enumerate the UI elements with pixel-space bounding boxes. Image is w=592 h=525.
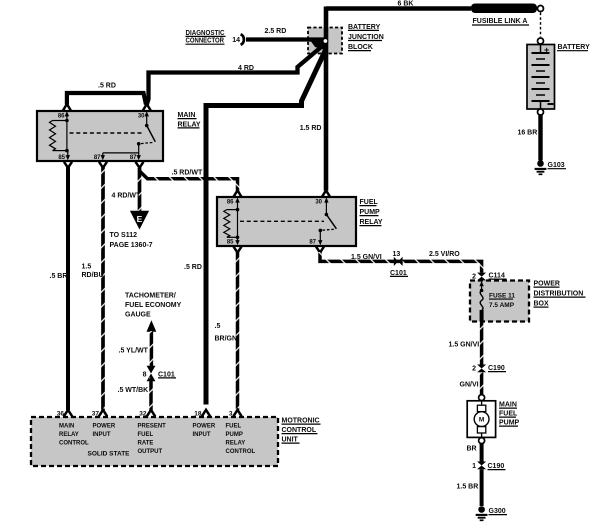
svg-text:TO S112: TO S112 <box>110 232 138 239</box>
svg-text:1.5 BR: 1.5 BR <box>457 484 479 491</box>
svg-text:86: 86 <box>227 200 234 206</box>
wire 6 BK horizontal from junction to fusible link <box>326 1 471 9</box>
main relay U1 label <box>178 112 201 128</box>
svg-text:30: 30 <box>138 114 145 120</box>
svg-text:INPUT: INPUT <box>93 432 111 438</box>
svg-text:INPUT: INPUT <box>193 432 211 438</box>
svg-text:.5 WT/BK: .5 WT/BK <box>118 387 149 394</box>
terminal circle at fusible link end <box>538 6 544 12</box>
battery <box>527 44 590 109</box>
svg-text:CONTROL: CONTROL <box>226 449 256 455</box>
svg-text:.5: .5 <box>215 323 221 330</box>
svg-text:C101: C101 <box>390 270 407 277</box>
svg-text:CONTROL: CONTROL <box>59 441 89 447</box>
main relay pin 87 middle inner arrow <box>101 155 105 160</box>
main relay pin 87 right inner arrow <box>137 155 141 160</box>
svg-text:.5 RD: .5 RD <box>98 83 116 90</box>
svg-text:MAIN: MAIN <box>499 402 517 409</box>
svg-text:FUEL: FUEL <box>499 411 518 418</box>
svg-text:2.5 VI/RO: 2.5 VI/RO <box>429 251 460 258</box>
svg-text:.5 RD/WT: .5 RD/WT <box>172 170 203 177</box>
svg-text:RELAY: RELAY <box>226 441 246 447</box>
wire .5 BR/GN fuel pump relay 85 to Motronic 3 <box>215 247 242 417</box>
ground G300 <box>476 506 507 520</box>
main relay pin flare 86 top <box>63 104 71 111</box>
svg-text:2: 2 <box>472 366 476 373</box>
wire main vertical battery feed through junction block down to fuel pump relay <box>324 7 329 191</box>
main relay pin 30 inner arrow and switch <box>137 111 155 145</box>
svg-text:6 BK: 6 BK <box>398 1 414 8</box>
svg-text:1.5 GN/VI: 1.5 GN/VI <box>351 254 382 261</box>
svg-text:C114: C114 <box>489 273 505 280</box>
svg-text:PUMP: PUMP <box>360 209 381 216</box>
pump top terminal circle <box>479 395 485 401</box>
svg-text:87: 87 <box>130 155 137 161</box>
arrow to tachometer <box>147 320 157 332</box>
diagnostic connector pin 14 symbol <box>232 34 244 45</box>
svg-text:JUNCTION: JUNCTION <box>348 34 384 41</box>
svg-text:DIAGNOSTIC: DIAGNOSTIC <box>186 30 225 37</box>
svg-text:1.5 GN/VI: 1.5 GN/VI <box>449 342 480 349</box>
svg-text:FUSE 11: FUSE 11 <box>489 293 515 300</box>
wire BR pump to C190 <box>467 444 482 462</box>
svg-text:C190: C190 <box>488 463 505 470</box>
wire 1.5 RD/BU main relay 87 to Motronic 37 <box>82 162 108 417</box>
svg-text:BATTERY: BATTERY <box>348 24 381 31</box>
svg-text:TACHOMETER/: TACHOMETER/ <box>125 293 176 300</box>
svg-text:2.5 RD: 2.5 RD <box>265 28 287 35</box>
svg-text:MOTRONIC: MOTRONIC <box>282 418 320 425</box>
svg-text:85: 85 <box>58 155 65 161</box>
wire 16 BR battery to ground <box>517 115 540 161</box>
svg-text:32: 32 <box>139 411 147 418</box>
svg-text:.5 YL/WT: .5 YL/WT <box>119 348 149 355</box>
svg-text:GN/VI: GN/VI <box>460 382 479 389</box>
svg-text:16 BR: 16 BR <box>517 130 537 137</box>
main relay pin flare 30 top <box>143 104 151 111</box>
fuel pump relay pin 87 inner arrow <box>318 230 322 245</box>
svg-text:FUEL: FUEL <box>360 199 379 206</box>
svg-text:POWER: POWER <box>93 424 116 430</box>
svg-text:C190: C190 <box>488 365 505 372</box>
svg-text:OUTPUT: OUTPUT <box>138 449 163 455</box>
svg-text:8: 8 <box>143 372 147 379</box>
svg-text:PUMP: PUMP <box>226 432 243 438</box>
svg-text:1: 1 <box>472 463 476 470</box>
svg-text:RD/BU: RD/BU <box>82 272 104 279</box>
svg-text:POWER: POWER <box>534 281 560 288</box>
wire GN/VI C190 to pump <box>460 372 482 394</box>
fuel pump relay coil <box>224 208 240 239</box>
main relay pin 85 inner arrow <box>66 151 70 161</box>
svg-text:87: 87 <box>309 239 316 245</box>
svg-text:C101: C101 <box>158 371 175 378</box>
svg-text:BOX: BOX <box>534 301 550 308</box>
fuel pump relay armature dashed link <box>240 220 324 222</box>
svg-text:CONTROL: CONTROL <box>282 427 317 434</box>
wire .5 RD loop main relay pin 86 to pin 30 <box>67 83 146 105</box>
svg-text:BR/GN: BR/GN <box>215 336 238 343</box>
svg-text:.5 RD: .5 RD <box>184 264 202 271</box>
junction fan blob <box>310 40 328 51</box>
power distribution box label <box>534 281 586 308</box>
svg-text:4 RD: 4 RD <box>238 65 254 72</box>
Motronic pin 18 flare <box>202 410 210 417</box>
svg-text:G103: G103 <box>548 162 565 169</box>
svg-text:13: 13 <box>393 251 401 258</box>
connector C190 pin 1 <box>472 462 505 471</box>
wire 2.5 RD diagnostic connector to junction <box>246 28 324 40</box>
Motronic control unit box <box>31 417 278 466</box>
svg-text:1.5: 1.5 <box>82 264 92 271</box>
Motronic control unit label <box>282 418 321 444</box>
fusible link A <box>471 4 537 26</box>
main fuel pump <box>467 401 519 438</box>
svg-text:RELAY: RELAY <box>59 432 79 438</box>
svg-text:BATTERY: BATTERY <box>558 44 591 51</box>
svg-text:4 RD/WT: 4 RD/WT <box>112 193 142 200</box>
node at battery junction block <box>323 39 328 44</box>
svg-text:SOLID STATE: SOLID STATE <box>88 451 131 458</box>
connector C101 pin 13 on horizontal wire <box>390 251 408 277</box>
fuel pump relay pin 30 inner arrow and switch <box>319 197 337 232</box>
Motronic internal labels <box>59 424 255 458</box>
svg-text:MAIN: MAIN <box>59 424 74 430</box>
main relay armature dashed link <box>70 132 145 134</box>
svg-text:30: 30 <box>315 200 322 206</box>
fuse 11 <box>479 281 515 322</box>
svg-text:RELAY: RELAY <box>360 219 383 226</box>
svg-text:PAGE 1360-7: PAGE 1360-7 <box>110 242 153 249</box>
tachometer / fuel economy gauge label <box>125 293 182 319</box>
svg-text:MAIN: MAIN <box>178 112 196 119</box>
svg-text:FUEL ECONOMY: FUEL ECONOMY <box>125 302 182 309</box>
svg-text:DISTRIBUTION: DISTRIBUTION <box>534 291 584 298</box>
wire 1.5 GN/VI fuse to C190 <box>449 322 482 365</box>
svg-text:2: 2 <box>472 273 476 280</box>
main relay coil <box>50 119 69 153</box>
main relay box <box>37 111 163 161</box>
svg-text:CONNECTOR: CONNECTOR <box>186 38 225 45</box>
svg-text:3: 3 <box>229 411 233 418</box>
svg-text:FUEL: FUEL <box>226 424 242 430</box>
wire .5 RD/WT branch to fuel pump relay 86 <box>140 170 242 197</box>
svg-text:BLOCK: BLOCK <box>348 44 373 51</box>
diagnostic connector label <box>186 30 226 45</box>
wire 1.5 BR C190 to ground <box>457 469 482 506</box>
battery junction block <box>308 28 342 54</box>
battery junction block label <box>348 24 384 51</box>
svg-text:BR: BR <box>467 446 477 453</box>
svg-text:G300: G300 <box>489 508 506 515</box>
svg-text:85: 85 <box>227 239 234 245</box>
fuel pump relay label <box>360 199 383 226</box>
main relay pin 86 inner arrow <box>65 111 69 120</box>
svg-text:87: 87 <box>94 155 101 161</box>
svg-text:37: 37 <box>92 411 100 418</box>
svg-text:18: 18 <box>194 411 202 418</box>
svg-text:UNIT: UNIT <box>282 437 299 444</box>
svg-text:GAUGE: GAUGE <box>125 311 151 318</box>
battery negative terminal circle <box>538 109 544 115</box>
svg-text:PRESENT: PRESENT <box>138 424 167 430</box>
connector C190 pin 2 <box>472 365 506 373</box>
wire .5 WT/BK C101 to Motronic 32 <box>118 378 156 417</box>
connector E to S112 <box>110 211 153 249</box>
wire 1.5 GN/VI fuel pump relay 87 to C101 <box>316 247 482 273</box>
fuel pump relay pin 30 flare <box>322 190 330 196</box>
svg-text:FUSIBLE LINK A: FUSIBLE LINK A <box>473 18 528 25</box>
connector C101 pin 8 <box>143 366 176 381</box>
svg-text:14: 14 <box>232 37 240 44</box>
wire 4 RD/WT main relay 87 to connector E <box>112 162 144 212</box>
svg-text:PUMP: PUMP <box>499 420 520 427</box>
wire .5 YL/WT tachometer to C101 <box>119 331 152 370</box>
fuel pump relay pin 86 inner arrow <box>235 197 239 209</box>
battery positive terminal circle <box>538 38 544 44</box>
dashed link to battery positive <box>540 13 542 38</box>
wire .5 BR main relay 85 to Motronic 36 <box>50 162 73 417</box>
svg-text:7.5 AMP: 7.5 AMP <box>489 302 515 309</box>
wire 4 RD from junction to main relay pin 30 <box>147 45 324 105</box>
svg-text:E: E <box>137 214 143 224</box>
svg-text:RATE: RATE <box>138 441 154 447</box>
svg-text:FUEL: FUEL <box>138 432 154 438</box>
svg-text:86: 86 <box>58 114 65 120</box>
svg-text:1.5 RD: 1.5 RD <box>300 125 322 132</box>
svg-text:RELAY: RELAY <box>178 121 201 128</box>
pump bottom terminal circle <box>479 438 485 444</box>
svg-text:M: M <box>479 417 484 424</box>
power distribution box <box>470 281 529 322</box>
svg-text:.5 BR: .5 BR <box>50 273 68 280</box>
svg-text:POWER: POWER <box>193 424 216 430</box>
main relay link to 87 pins <box>103 144 139 157</box>
wire .5 RD from junction down to Motronic pin 18 <box>184 50 326 405</box>
connector C114 pin 2 <box>472 273 506 281</box>
svg-text:36: 36 <box>57 411 65 418</box>
fuel pump relay box <box>217 197 356 246</box>
ground G103 <box>535 160 566 174</box>
fuel pump relay pin 85 inner arrow <box>235 237 239 245</box>
